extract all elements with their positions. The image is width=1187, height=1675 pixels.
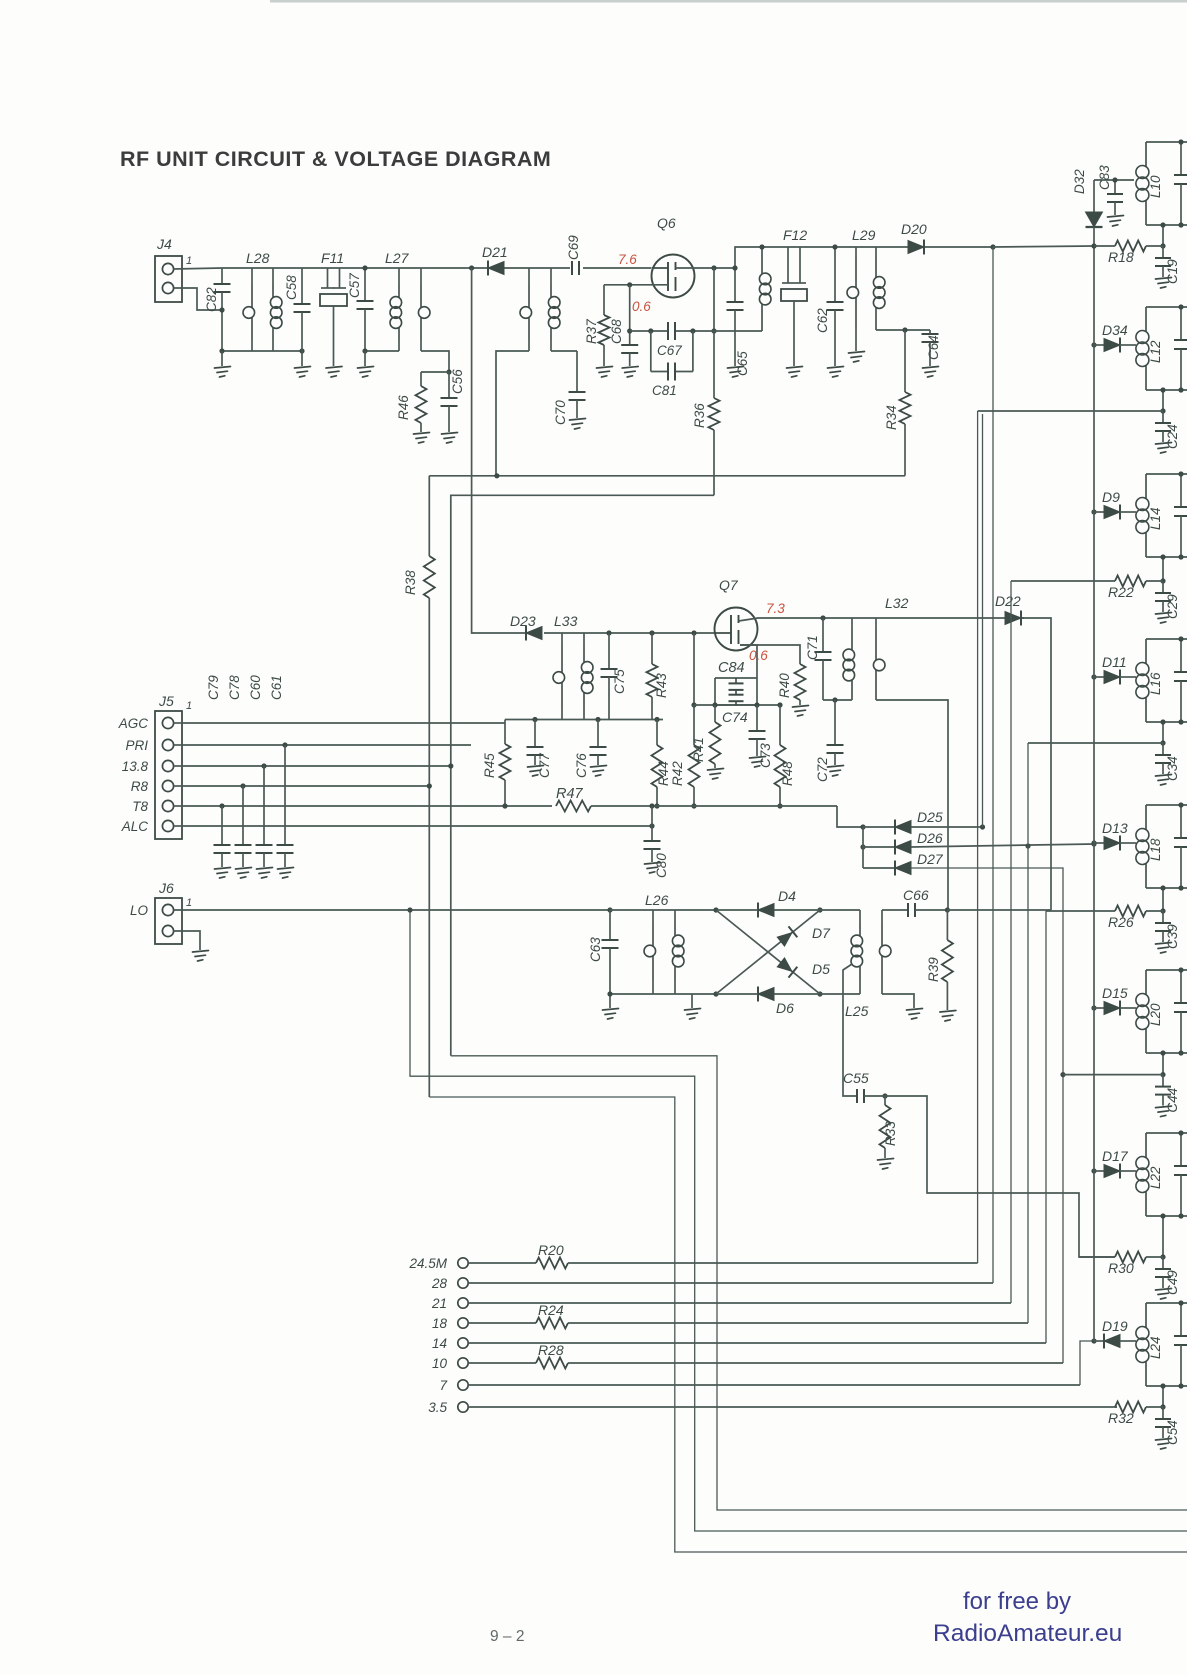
svg-text:C78: C78 bbox=[227, 675, 242, 700]
svg-text:D32: D32 bbox=[1072, 169, 1087, 194]
svg-text:R22: R22 bbox=[1108, 584, 1134, 600]
svg-text:C72: C72 bbox=[815, 757, 830, 782]
svg-text:C79: C79 bbox=[206, 675, 221, 700]
svg-text:LO: LO bbox=[130, 903, 149, 918]
svg-text:L16: L16 bbox=[1148, 672, 1163, 695]
svg-text:C67: C67 bbox=[657, 343, 682, 358]
svg-text:C74: C74 bbox=[722, 709, 748, 725]
svg-text:R42: R42 bbox=[670, 761, 685, 786]
svg-text:C84: C84 bbox=[718, 660, 745, 676]
svg-text:F12: F12 bbox=[783, 227, 807, 243]
svg-text:D20: D20 bbox=[901, 221, 927, 237]
svg-text:R18: R18 bbox=[1108, 249, 1134, 265]
svg-text:Q6: Q6 bbox=[657, 215, 676, 231]
svg-text:D22: D22 bbox=[995, 593, 1021, 609]
svg-text:D4: D4 bbox=[778, 888, 796, 904]
svg-text:C82: C82 bbox=[204, 287, 219, 312]
svg-text:R28: R28 bbox=[538, 1342, 564, 1358]
svg-text:C81: C81 bbox=[652, 383, 677, 398]
svg-text:28: 28 bbox=[431, 1276, 448, 1291]
svg-text:Q7: Q7 bbox=[719, 577, 739, 593]
svg-text:J4: J4 bbox=[156, 236, 172, 252]
svg-text:C83: C83 bbox=[1097, 165, 1112, 190]
svg-text:R41: R41 bbox=[691, 737, 706, 762]
svg-text:L18: L18 bbox=[1148, 838, 1163, 861]
svg-text:C80: C80 bbox=[654, 853, 669, 878]
svg-text:C60: C60 bbox=[248, 675, 263, 700]
svg-text:R44: R44 bbox=[656, 761, 671, 786]
svg-text:R30: R30 bbox=[1108, 1260, 1134, 1276]
svg-text:L27: L27 bbox=[385, 250, 410, 266]
svg-text:RadioAmateur.eu: RadioAmateur.eu bbox=[933, 1620, 1122, 1647]
svg-text:C44: C44 bbox=[1165, 1088, 1180, 1113]
svg-text:R20: R20 bbox=[538, 1242, 564, 1258]
svg-text:D7: D7 bbox=[812, 925, 831, 941]
svg-text:D19: D19 bbox=[1102, 1318, 1128, 1334]
svg-text:R47: R47 bbox=[556, 786, 584, 802]
svg-text:L12: L12 bbox=[1148, 340, 1163, 363]
svg-text:10: 10 bbox=[432, 1356, 448, 1371]
svg-text:0.6: 0.6 bbox=[632, 299, 651, 314]
svg-text:C70: C70 bbox=[553, 400, 568, 425]
svg-text:0.6: 0.6 bbox=[749, 648, 768, 663]
svg-text:R43: R43 bbox=[654, 673, 669, 698]
svg-text:L20: L20 bbox=[1148, 1003, 1163, 1026]
svg-text:C24: C24 bbox=[1165, 424, 1180, 449]
svg-text:D21: D21 bbox=[482, 244, 508, 260]
svg-text:L26: L26 bbox=[645, 892, 669, 908]
svg-text:C29: C29 bbox=[1165, 594, 1180, 619]
svg-text:L14: L14 bbox=[1148, 507, 1163, 530]
svg-text:R45: R45 bbox=[482, 753, 497, 778]
svg-text:C66: C66 bbox=[903, 887, 929, 903]
svg-text:14: 14 bbox=[432, 1336, 447, 1351]
svg-text:L28: L28 bbox=[246, 250, 270, 266]
svg-text:C73: C73 bbox=[758, 743, 773, 768]
svg-text:PRI: PRI bbox=[125, 738, 148, 753]
svg-text:C19: C19 bbox=[1165, 259, 1180, 284]
svg-text:C71: C71 bbox=[805, 635, 820, 660]
svg-text:L33: L33 bbox=[554, 613, 578, 629]
svg-text:7.6: 7.6 bbox=[618, 252, 637, 267]
svg-text:C56: C56 bbox=[450, 369, 465, 394]
svg-text:R37: R37 bbox=[584, 319, 599, 344]
svg-text:C63: C63 bbox=[588, 937, 603, 962]
svg-text:C76: C76 bbox=[574, 753, 589, 778]
svg-text:C69: C69 bbox=[566, 235, 581, 260]
svg-text:R48: R48 bbox=[780, 761, 795, 786]
svg-text:J5: J5 bbox=[158, 693, 174, 709]
svg-text:R33: R33 bbox=[883, 1121, 898, 1146]
svg-text:L10: L10 bbox=[1148, 175, 1163, 198]
svg-text:R8: R8 bbox=[131, 779, 149, 794]
svg-text:L25: L25 bbox=[845, 1003, 869, 1019]
svg-text:R46: R46 bbox=[396, 395, 411, 420]
svg-text:D26: D26 bbox=[917, 830, 943, 846]
svg-text:13.8: 13.8 bbox=[122, 759, 149, 774]
svg-text:C64: C64 bbox=[926, 335, 941, 360]
svg-text:D27: D27 bbox=[917, 851, 944, 867]
svg-text:F11: F11 bbox=[321, 250, 344, 266]
svg-text:RF UNIT CIRCUIT & VOLTAGE DIAG: RF UNIT CIRCUIT & VOLTAGE DIAGRAM bbox=[120, 147, 551, 171]
svg-text:R26: R26 bbox=[1108, 914, 1134, 930]
svg-text:D5: D5 bbox=[812, 961, 830, 977]
svg-text:C75: C75 bbox=[612, 669, 627, 694]
svg-text:3.5: 3.5 bbox=[428, 1400, 447, 1415]
svg-text:C34: C34 bbox=[1165, 756, 1180, 781]
svg-text:C61: C61 bbox=[269, 675, 284, 700]
svg-text:C57: C57 bbox=[347, 273, 362, 298]
svg-text:C77: C77 bbox=[537, 753, 552, 778]
svg-text:ALC: ALC bbox=[121, 819, 149, 834]
svg-text:C65: C65 bbox=[735, 351, 750, 376]
svg-text:L24: L24 bbox=[1148, 1336, 1163, 1359]
svg-text:D25: D25 bbox=[917, 809, 943, 825]
svg-text:1: 1 bbox=[186, 700, 192, 712]
svg-text:1: 1 bbox=[186, 897, 192, 909]
svg-text:D15: D15 bbox=[1102, 985, 1128, 1001]
svg-text:D17: D17 bbox=[1102, 1148, 1129, 1164]
svg-text:R24: R24 bbox=[538, 1302, 564, 1318]
svg-text:D6: D6 bbox=[776, 1000, 794, 1016]
svg-text:21: 21 bbox=[431, 1296, 447, 1311]
svg-text:L32: L32 bbox=[885, 595, 909, 611]
svg-text:R36: R36 bbox=[692, 403, 707, 428]
svg-text:C49: C49 bbox=[1165, 1270, 1180, 1295]
svg-text:R38: R38 bbox=[403, 570, 418, 595]
svg-text:C55: C55 bbox=[843, 1070, 869, 1086]
svg-text:C62: C62 bbox=[815, 308, 830, 333]
svg-text:D34: D34 bbox=[1102, 322, 1128, 338]
svg-text:T8: T8 bbox=[132, 799, 148, 814]
svg-text:C68: C68 bbox=[609, 319, 624, 344]
svg-text:18: 18 bbox=[432, 1316, 448, 1331]
svg-text:R40: R40 bbox=[777, 673, 792, 698]
svg-text:J6: J6 bbox=[158, 880, 174, 896]
svg-text:7: 7 bbox=[439, 1378, 447, 1393]
svg-text:D23: D23 bbox=[510, 613, 536, 629]
svg-text:D13: D13 bbox=[1102, 820, 1128, 836]
svg-text:for free by: for free by bbox=[963, 1588, 1071, 1615]
svg-text:D9: D9 bbox=[1102, 489, 1120, 505]
svg-text:9 – 2: 9 – 2 bbox=[490, 1628, 524, 1645]
svg-text:7.3: 7.3 bbox=[766, 601, 785, 616]
svg-text:AGC: AGC bbox=[118, 716, 149, 731]
svg-text:C58: C58 bbox=[284, 275, 299, 300]
svg-text:C39: C39 bbox=[1165, 924, 1180, 949]
svg-text:24.5M: 24.5M bbox=[408, 1256, 447, 1271]
svg-text:R34: R34 bbox=[884, 405, 899, 430]
svg-text:R32: R32 bbox=[1108, 1410, 1134, 1426]
svg-text:C54: C54 bbox=[1165, 1420, 1180, 1445]
svg-text:1: 1 bbox=[186, 255, 192, 267]
svg-text:R39: R39 bbox=[926, 957, 941, 982]
svg-text:L22: L22 bbox=[1148, 1166, 1163, 1189]
svg-text:D11: D11 bbox=[1102, 654, 1127, 670]
svg-text:L29: L29 bbox=[852, 227, 876, 243]
